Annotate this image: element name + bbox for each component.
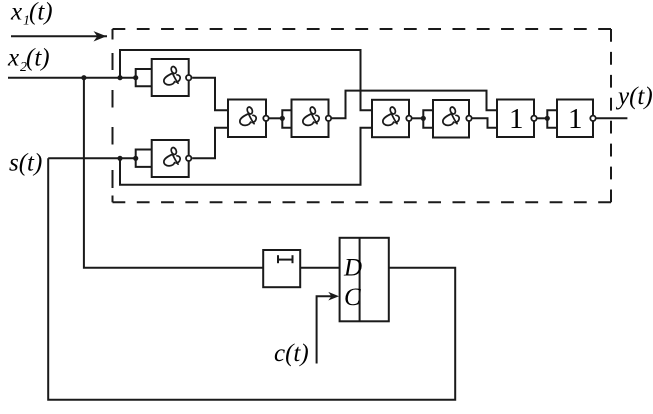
wire G4 output over to G7 top input (332, 91, 497, 119)
inversion bubble G8 output (590, 116, 595, 121)
NAND gate G2 (inverter, & box) (152, 140, 189, 177)
NAND gate G3 (& box) (228, 100, 266, 138)
inversion bubble G3 output (263, 116, 268, 121)
input tie bracket of gate G2 (136, 150, 152, 167)
inversion bubble G2 output (186, 156, 191, 161)
svg-text:x: x (7, 45, 19, 72)
inversion bubble G1 output (186, 75, 191, 80)
label s(t) (9, 150, 42, 177)
NAND gate G1 (inverter, & box) (152, 59, 189, 96)
inversion bubble G4 output (326, 116, 331, 121)
pin label C (344, 284, 361, 311)
clock arrowhead (328, 292, 339, 301)
OR gate G8 (1 box) (557, 100, 593, 138)
delay element symbol (bar with end ticks) (278, 259, 293, 261)
pin label D (343, 255, 362, 282)
output label y(t) (615, 83, 653, 110)
svg-text:C: C (344, 284, 361, 311)
flip-flop internal divider (359, 238, 361, 321)
svg-text:c(t): c(t) (274, 340, 309, 367)
node junction dot s/G2 bracket (133, 156, 138, 161)
wire G3 output to G4 bracket (270, 117, 283, 119)
inversion bubble G5 output (406, 116, 411, 121)
input tie bracket of gate G8 (547, 110, 557, 127)
wire from x2 node up and across to gate G5 top input (120, 50, 372, 110)
wire G7 output to G8 bracket (538, 117, 548, 119)
node junction dot x2/delay-drop (81, 75, 86, 80)
node junction dot G4 bracket (280, 116, 285, 121)
svg-text:(t): (t) (29, 0, 53, 25)
wire G1 output to G3 top input (192, 78, 228, 111)
node junction dot G6 bracket (421, 116, 426, 121)
wire x2 input line (8, 77, 136, 79)
node junction dot s/bottom-loop (117, 156, 122, 161)
wire flip-flop output feedback loop to s line (48, 158, 455, 399)
wire s line to gate G2 (48, 157, 136, 159)
wire delay output to D input of flip-flop (300, 267, 339, 269)
input tie bracket of gate G1 (136, 69, 152, 86)
input tie bracket of gate G6 (423, 110, 433, 127)
node junction dot x2/G1 bracket (133, 75, 138, 80)
wire G5 output to G6 bracket (413, 117, 424, 119)
wire G6 output jog down to G7 bottom input (473, 118, 498, 127)
svg-text:1: 1 (568, 103, 583, 135)
input label x2(t) (7, 45, 50, 75)
wire y(t) output line (597, 117, 628, 119)
svg-text:s(t): s(t) (9, 150, 42, 177)
node junction dot G8 bracket (545, 116, 550, 121)
dashed boundary box of combinational device (113, 28, 612, 30)
label c(t) (274, 340, 309, 367)
svg-text:D: D (343, 255, 362, 282)
inversion bubble G7 output (531, 116, 536, 121)
node junction dot x2/top-loop (117, 75, 122, 80)
svg-text:x: x (10, 0, 22, 25)
wire x1 input line (11, 35, 107, 37)
inversion bubble G6 output (466, 116, 471, 121)
wire c(t) clock input with arrowhead (317, 296, 334, 363)
svg-text:y(t): y(t) (615, 83, 653, 110)
NAND gate G4 (inverter, & box) (292, 100, 329, 138)
wire G2 output to G3 bottom input (192, 128, 228, 159)
NAND gate G5 (& box) (372, 100, 409, 137)
NAND gate G6 (inverter, & box) (433, 100, 469, 138)
delay element box (263, 250, 300, 287)
svg-text:(t): (t) (26, 45, 50, 72)
input label x1(t) (10, 0, 53, 29)
wire from x2 node down to delay element input (84, 78, 263, 268)
D flip-flop U1 box (340, 238, 389, 321)
svg-text:1: 1 (509, 103, 524, 135)
input tie bracket of gate G4 (282, 110, 291, 127)
wire from s node down and across to gate G5 bottom input (120, 128, 372, 185)
x1 arrowhead (94, 31, 107, 41)
OR gate G7 (1 box) (497, 100, 534, 138)
